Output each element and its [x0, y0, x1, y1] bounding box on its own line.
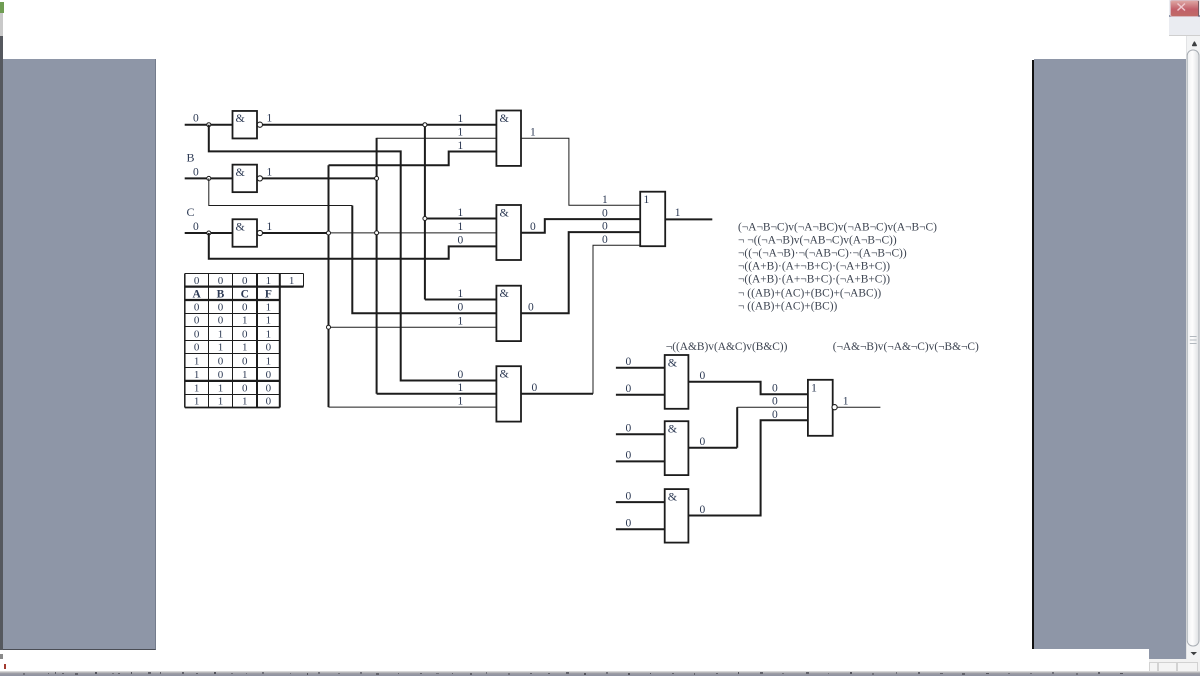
svg-text:&: & — [668, 489, 678, 503]
svg-text:1: 1 — [194, 369, 200, 381]
svg-text:0: 0 — [193, 113, 199, 125]
svg-text:0: 0 — [193, 221, 199, 233]
svg-text:0: 0 — [626, 450, 632, 462]
svg-text:0: 0 — [266, 369, 272, 381]
svg-text:0: 0 — [458, 235, 464, 247]
svg-text:&: & — [668, 422, 678, 436]
svg-text:B: B — [217, 289, 225, 301]
svg-text:0: 0 — [602, 221, 608, 233]
svg-text:0: 0 — [242, 329, 248, 341]
svg-text:1: 1 — [266, 275, 272, 287]
svg-text:0: 0 — [700, 504, 706, 516]
svg-text:0: 0 — [242, 302, 248, 314]
svg-text:0: 0 — [772, 396, 778, 408]
svg-text:1: 1 — [218, 329, 224, 341]
svg-text:&: & — [500, 111, 510, 125]
svg-text:1: 1 — [811, 380, 817, 394]
svg-text:1: 1 — [458, 395, 464, 407]
svg-text:0: 0 — [218, 315, 224, 327]
svg-text:1: 1 — [266, 315, 272, 327]
svg-text:1: 1 — [194, 356, 200, 368]
svg-text:1: 1 — [267, 166, 273, 178]
svg-text:0: 0 — [218, 369, 224, 381]
svg-text:¬((A&B)v(A&C)v(B&C)): ¬((A&B)v(A&C)v(B&C)) — [666, 341, 788, 353]
svg-text:1: 1 — [643, 192, 649, 206]
svg-text:1: 1 — [218, 396, 224, 408]
svg-text:0: 0 — [194, 329, 200, 341]
svg-text:&: & — [500, 367, 510, 381]
svg-text:¬((A+B)·(A+¬B+C)·(¬A+B+C)): ¬((A+B)·(A+¬B+C)·(¬A+B+C)) — [738, 261, 890, 273]
svg-text:1: 1 — [458, 140, 464, 152]
svg-text:&: & — [236, 111, 246, 125]
svg-text:0: 0 — [602, 208, 608, 220]
svg-text:1: 1 — [458, 288, 464, 300]
svg-text:0: 0 — [194, 315, 200, 327]
svg-text:0: 0 — [626, 423, 632, 435]
svg-text:1: 1 — [843, 396, 849, 408]
svg-text:1: 1 — [675, 207, 681, 219]
svg-text:1: 1 — [242, 369, 248, 381]
svg-text:1: 1 — [602, 194, 608, 206]
svg-text:¬ ((AB)+(AC)+(BC)): ¬ ((AB)+(AC)+(BC)) — [738, 300, 838, 312]
svg-text:&: & — [500, 205, 510, 219]
svg-text:1: 1 — [530, 127, 536, 139]
svg-text:¬((A+B)·(A+¬B+C)·(¬A+B+C)): ¬((A+B)·(A+¬B+C)·(¬A+B+C)) — [738, 274, 890, 286]
svg-text:1: 1 — [458, 127, 464, 139]
svg-text:1: 1 — [194, 396, 200, 408]
svg-text:1: 1 — [266, 356, 272, 368]
svg-text:1: 1 — [458, 316, 464, 328]
svg-text:1: 1 — [266, 329, 272, 341]
svg-text:¬((¬(¬A¬B)·¬(¬AB¬C)·¬(A¬B¬C)): ¬((¬(¬A¬B)·¬(¬AB¬C)·¬(A¬B¬C)) — [738, 247, 907, 259]
svg-text:C: C — [187, 205, 195, 219]
svg-text:1: 1 — [267, 113, 273, 125]
svg-text:0: 0 — [194, 275, 200, 287]
svg-text:0: 0 — [530, 221, 536, 233]
svg-text:(¬A&¬B)v(¬A&¬C)v(¬B&¬C): (¬A&¬B)v(¬A&¬C)v(¬B&¬C) — [833, 341, 979, 353]
svg-text:0: 0 — [626, 518, 632, 530]
svg-text:0: 0 — [242, 275, 248, 287]
svg-text:1: 1 — [458, 382, 464, 394]
svg-text:0: 0 — [626, 356, 632, 368]
svg-text:&: & — [500, 286, 510, 300]
svg-text:B: B — [187, 151, 195, 165]
svg-text:0: 0 — [242, 383, 248, 395]
svg-text:1: 1 — [242, 342, 248, 354]
svg-text:0: 0 — [626, 490, 632, 502]
svg-text:0: 0 — [218, 302, 224, 314]
svg-text:0: 0 — [194, 302, 200, 314]
svg-text:&: & — [668, 355, 678, 369]
svg-text:A: A — [192, 289, 201, 301]
svg-text:0: 0 — [458, 369, 464, 381]
svg-text:0: 0 — [528, 302, 534, 314]
svg-text:(¬A¬B¬C)v(¬A¬BC)v(¬AB¬C)v(A¬B¬: (¬A¬B¬C)v(¬A¬BC)v(¬AB¬C)v(A¬B¬C) — [738, 221, 937, 233]
svg-text:1: 1 — [194, 383, 200, 395]
svg-text:0: 0 — [266, 383, 272, 395]
svg-text:0: 0 — [242, 356, 248, 368]
svg-text:0: 0 — [194, 342, 200, 354]
svg-text:0: 0 — [266, 342, 272, 354]
svg-text:1: 1 — [458, 207, 464, 219]
svg-text:C: C — [241, 289, 249, 301]
svg-text:1: 1 — [242, 396, 248, 408]
svg-text:1: 1 — [218, 383, 224, 395]
svg-text:0: 0 — [218, 356, 224, 368]
svg-text:0: 0 — [700, 436, 706, 448]
svg-text:0: 0 — [458, 302, 464, 314]
svg-text:0: 0 — [602, 234, 608, 246]
svg-text:0: 0 — [700, 370, 706, 382]
svg-text:0: 0 — [772, 383, 778, 395]
svg-text:1: 1 — [267, 221, 273, 233]
svg-text:1: 1 — [242, 315, 248, 327]
svg-text:F: F — [265, 289, 272, 301]
svg-text:&: & — [236, 220, 246, 234]
svg-text:1: 1 — [218, 342, 224, 354]
svg-text:1: 1 — [458, 221, 464, 233]
svg-text:0: 0 — [218, 275, 224, 287]
svg-text:¬ ((AB)+(AC)+(BC)+(¬ABC)): ¬ ((AB)+(AC)+(BC)+(¬ABC)) — [738, 287, 881, 299]
svg-text:0: 0 — [532, 382, 538, 394]
svg-text:0: 0 — [193, 166, 199, 178]
svg-text:1: 1 — [266, 302, 272, 314]
svg-text:0: 0 — [266, 396, 272, 408]
svg-text:¬ ¬((¬A¬B)v(¬AB¬C)v(A¬B¬C)): ¬ ¬((¬A¬B)v(¬AB¬C)v(A¬B¬C)) — [738, 234, 897, 246]
svg-text:1: 1 — [458, 113, 464, 125]
svg-text:0: 0 — [772, 409, 778, 421]
svg-text:0: 0 — [626, 383, 632, 395]
svg-text:1: 1 — [289, 275, 295, 287]
svg-text:&: & — [236, 165, 246, 179]
